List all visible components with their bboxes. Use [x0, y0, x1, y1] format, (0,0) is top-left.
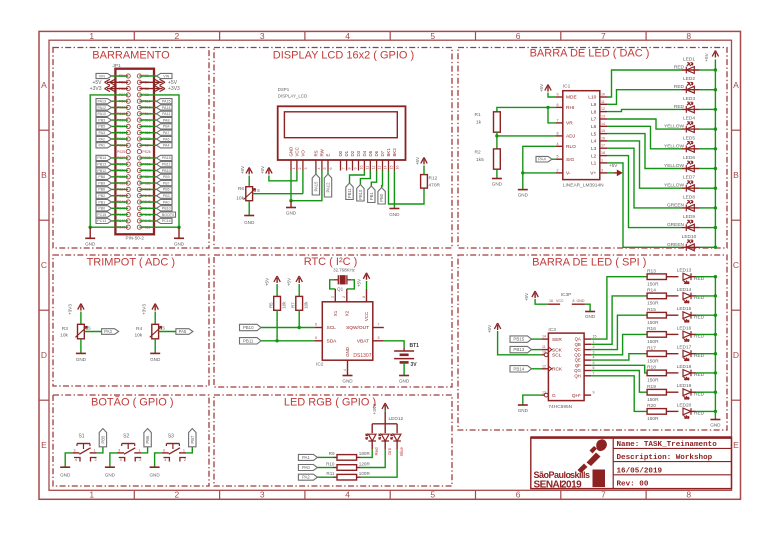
- svg-text:R7: R7: [291, 302, 296, 308]
- svg-text:LINEAR_LM3914N: LINEAR_LM3914N: [563, 183, 604, 189]
- svg-text:3: 3: [118, 448, 120, 452]
- wire IC1 L9 to LED2: [607, 90, 681, 105]
- svg-text:QH: QH: [574, 373, 580, 378]
- svg-text:GND: GND: [518, 408, 529, 413]
- IC3 pin 9 QH*: [584, 394, 591, 396]
- wire crystal to X2: [347, 280, 355, 289]
- svg-text:120R: 120R: [359, 461, 371, 466]
- LED LED10: [681, 246, 700, 248]
- net flag PB14: [96, 155, 112, 160]
- svg-text:15: 15: [593, 335, 597, 339]
- net flag PB15: [157, 155, 173, 160]
- svg-text:PB6: PB6: [98, 188, 105, 192]
- svg-text:1k: 1k: [476, 120, 482, 126]
- junction: [275, 339, 278, 342]
- svg-text:LED8: LED8: [683, 194, 695, 200]
- svg-text:PB5: PB5: [98, 125, 105, 129]
- IC1 pin L7: [600, 118, 607, 120]
- svg-text:12: 12: [601, 107, 605, 111]
- resistor R5: [274, 296, 281, 310]
- net flag VIN right: [157, 73, 173, 78]
- LED LED1: [681, 69, 700, 71]
- title block divider: [612, 437, 614, 488]
- resistor R12: [421, 175, 428, 189]
- svg-text:PS26: PS26: [142, 150, 150, 154]
- IC3 pin 4 QE: [584, 359, 591, 361]
- svg-text:GND: GND: [399, 379, 410, 384]
- section box LED RGB: [214, 395, 452, 486]
- net flag PB13: [96, 162, 112, 167]
- svg-text:+3V3: +3V3: [372, 403, 377, 414]
- ground S2: [105, 466, 115, 468]
- LED LED15: [666, 314, 678, 316]
- net flag PA7: [157, 130, 173, 135]
- junction: [714, 352, 717, 355]
- wire LCD RW to GND net: [291, 171, 322, 201]
- wire S3 to flag: [186, 447, 192, 453]
- svg-text:10k: 10k: [236, 196, 244, 202]
- IC2 pin 4 GND: [347, 360, 349, 375]
- svg-text:R18: R18: [647, 365, 656, 371]
- svg-text:7: 7: [378, 323, 380, 327]
- IC3 pin 10 SCL: [541, 354, 548, 356]
- wire SCL net: [261, 327, 314, 329]
- svg-text:VCC: VCC: [295, 147, 300, 156]
- wire R3 wiper to PA3: [84, 331, 101, 333]
- junction: [546, 106, 549, 109]
- svg-text:LED RGB ( GPIO ): LED RGB ( GPIO ): [284, 396, 376, 408]
- switch S1: [77, 443, 90, 445]
- supply +5V arrow R7: [298, 278, 300, 283]
- svg-text:LED6: LED6: [683, 155, 695, 161]
- net flag PB5: [99, 429, 106, 447]
- LED LED5: [681, 148, 700, 150]
- svg-text:+3V3: +3V3: [90, 86, 102, 92]
- svg-text:1: 1: [89, 490, 94, 500]
- LED LED8: [681, 207, 700, 209]
- IC2 pin 6 SCL: [314, 327, 322, 329]
- svg-text:E: E: [41, 440, 47, 450]
- svg-text:BARRA DE LED ( SPI ): BARRA DE LED ( SPI ): [532, 256, 646, 268]
- supply +5V arrow R5: [276, 278, 278, 283]
- IC1 pin 7 VR: [556, 122, 563, 124]
- svg-text:+5V: +5V: [357, 278, 362, 287]
- wire LED to bus: [700, 246, 716, 248]
- net flag PA4: [157, 143, 173, 148]
- svg-text:SIG: SIG: [566, 157, 575, 163]
- svg-text:VIN: VIN: [163, 74, 169, 78]
- svg-text:+5V: +5V: [92, 80, 102, 86]
- junction: [289, 199, 292, 202]
- svg-text:LED13: LED13: [677, 268, 692, 274]
- ground IC1: [518, 189, 528, 191]
- resistor R19: [647, 389, 666, 395]
- svg-text:PB13: PB13: [97, 163, 106, 167]
- net flag PA12: [324, 174, 331, 197]
- frame outer border: [39, 31, 741, 499]
- svg-text:17: 17: [601, 144, 605, 148]
- IC1 pin L5: [600, 133, 607, 135]
- wire ADJ: [497, 135, 556, 137]
- logo block: [593, 470, 606, 488]
- svg-text:PB10: PB10: [358, 189, 363, 200]
- svg-text:PA5: PA5: [179, 329, 187, 334]
- svg-text:MDE: MDE: [566, 95, 577, 101]
- net flag PB8: [96, 174, 112, 179]
- svg-text:GND: GND: [289, 147, 294, 157]
- svg-text:E: E: [326, 154, 331, 157]
- svg-text:GREEN: GREEN: [667, 202, 685, 208]
- svg-text:VCC: VCC: [556, 299, 564, 303]
- resistor R2: [494, 149, 501, 169]
- supply +5V arrow IC1: [547, 87, 549, 92]
- IC1 pin L4: [600, 140, 607, 142]
- ground left: [89, 227, 91, 238]
- IC3P GND pin: [572, 303, 585, 305]
- svg-text:VIN: VIN: [99, 74, 105, 78]
- svg-text:2: 2: [557, 168, 559, 172]
- svg-text:RW: RW: [320, 148, 325, 156]
- resistor R15: [647, 312, 666, 318]
- IC2 pin 5 SDA: [314, 340, 322, 342]
- wire trimpot R6 to GND: [248, 201, 250, 216]
- svg-text:VR: VR: [566, 121, 573, 127]
- wire S1 to flag: [97, 447, 103, 453]
- IC3 pin 13 G: [541, 394, 548, 396]
- IC1 pin L9: [600, 103, 607, 105]
- svg-text:R1: R1: [475, 112, 481, 118]
- ground R6: [244, 215, 254, 217]
- svg-text:GND: GND: [286, 211, 297, 216]
- svg-text:PB9: PB9: [98, 181, 105, 185]
- svg-text:LED7: LED7: [683, 175, 695, 181]
- section box DISPLAY LCD: [214, 48, 452, 249]
- svg-text:2: 2: [298, 168, 302, 170]
- IC2 pin 8 VCC: [366, 289, 368, 302]
- wire: [112, 138, 129, 140]
- svg-text:1: 1: [138, 448, 140, 452]
- resistor R16: [647, 332, 666, 338]
- svg-text:2: 2: [95, 458, 97, 462]
- junction: [521, 171, 524, 174]
- svg-text:32.768KHz: 32.768KHz: [333, 268, 355, 273]
- svg-text:PA3: PA3: [99, 131, 106, 135]
- svg-text:S2: S2: [123, 434, 129, 440]
- LED LED6: [681, 168, 700, 170]
- svg-text:L7: L7: [591, 117, 597, 123]
- junction: [714, 226, 717, 229]
- svg-text:PA0: PA0: [163, 200, 170, 204]
- IC1 pin L1: [600, 162, 607, 164]
- svg-text:TRIMPOT ( ADC ): TRIMPOT ( ADC ): [87, 256, 175, 268]
- svg-text:LED10: LED10: [682, 234, 697, 240]
- svg-text:D5: D5: [368, 150, 373, 156]
- svg-text:R16: R16: [647, 326, 656, 332]
- svg-text:+5V: +5V: [704, 52, 709, 61]
- svg-text:9: 9: [593, 391, 595, 395]
- svg-text:Red: Red: [374, 447, 379, 456]
- net flag PA8: [157, 118, 173, 123]
- net flag PA0: [157, 199, 173, 204]
- wire Red cathode to R9: [361, 449, 373, 457]
- LED LED4: [681, 128, 700, 130]
- svg-text:RS: RS: [314, 150, 319, 156]
- junction: [714, 294, 717, 297]
- resistor R13: [647, 274, 666, 280]
- svg-text:RHI: RHI: [566, 105, 574, 111]
- net flag PB15: [510, 336, 532, 342]
- svg-text:D: D: [733, 350, 739, 360]
- svg-text:R14: R14: [647, 288, 656, 294]
- header pin row 6 pads: [126, 105, 130, 109]
- svg-text:3: 3: [601, 168, 603, 172]
- wire VCC to +5V: [366, 281, 368, 289]
- svg-text:R20: R20: [647, 403, 656, 409]
- svg-text:16: 16: [395, 166, 399, 170]
- ground R2: [492, 178, 502, 180]
- header pin row 8 pads: [126, 118, 130, 122]
- svg-text:R3: R3: [62, 326, 68, 332]
- svg-text:100R: 100R: [359, 471, 371, 476]
- junction: [714, 275, 717, 278]
- wire IC3 QC to R15: [591, 315, 647, 349]
- junction: [714, 391, 717, 394]
- IC2 pin 2 X2: [346, 289, 348, 302]
- wire LED to GND bus: [696, 276, 715, 278]
- supply arrow +3V3 left: [107, 88, 128, 90]
- svg-text:BARRAMENTO: BARRAMENTO: [92, 50, 170, 62]
- net flag PB4: [157, 124, 173, 129]
- wire S2 to flag: [141, 447, 147, 453]
- section box TRIMPOT: [53, 255, 209, 386]
- switch S2: [122, 443, 135, 445]
- IC3 pin 12 RCK: [541, 368, 548, 370]
- svg-text:GND: GND: [710, 423, 721, 428]
- svg-text:LED18: LED18: [677, 364, 692, 370]
- wire LED to bus: [700, 227, 716, 229]
- header pin row 5 pads: [126, 99, 130, 103]
- net flag PB0: [96, 206, 112, 211]
- net flag PB9: [96, 181, 112, 186]
- IC1 pin L2: [600, 155, 607, 157]
- wire IC1 L5 to LED6: [607, 134, 681, 169]
- svg-text:SCL: SCL: [327, 325, 337, 331]
- svg-text:IC3: IC3: [548, 327, 556, 333]
- net flag PB11: [240, 338, 262, 344]
- wire S1 to GND: [65, 453, 72, 467]
- net flag PB11: [157, 162, 173, 167]
- wire IC1 L10 to LED1: [607, 70, 681, 97]
- wire SCL to +5V: [498, 331, 542, 355]
- svg-text:PB13: PB13: [513, 347, 524, 352]
- svg-text:L2: L2: [591, 153, 597, 159]
- IC1 pin 3 V+: [600, 172, 607, 174]
- svg-text:S: S: [88, 326, 91, 331]
- header pin row 1 pads: [126, 74, 130, 78]
- wire: [112, 75, 129, 77]
- net flag PC15: [96, 212, 112, 217]
- svg-text:PB8: PB8: [98, 175, 105, 179]
- wire: [112, 113, 129, 115]
- wire IC1 L6 to LED5: [607, 126, 681, 149]
- wire V+ to +5V: [607, 172, 614, 174]
- net flag PB10: [157, 168, 173, 173]
- svg-text:+5V: +5V: [539, 83, 544, 92]
- wire: [112, 119, 129, 121]
- supply +5V arrow R6: [248, 169, 250, 174]
- ground battery: [399, 375, 409, 377]
- svg-text:PC15: PC15: [97, 213, 106, 217]
- logo SENAI Sao Paulo skills hand: [596, 439, 607, 451]
- crystal Q1: [334, 279, 338, 281]
- wire R2 to GND: [496, 169, 498, 178]
- svg-text:150R: 150R: [647, 378, 659, 384]
- header pin row 19 pads: [126, 187, 130, 191]
- frame inner border: [49, 40, 732, 490]
- svg-text:GREEN: GREEN: [667, 222, 685, 228]
- svg-text:PA8: PA8: [163, 118, 170, 122]
- wire: [112, 100, 129, 102]
- header pin row 24 pads: [126, 219, 130, 223]
- svg-text:1: 1: [94, 448, 96, 452]
- svg-text:PB14: PB14: [97, 156, 106, 160]
- wire +3V3 to LED12: [384, 410, 386, 413]
- svg-text:+5V: +5V: [168, 80, 178, 86]
- junction: [298, 326, 301, 329]
- wire: [112, 157, 129, 159]
- title block outline: [531, 437, 732, 488]
- trimpot R6: [246, 187, 253, 201]
- svg-text:SCK: SCK: [552, 347, 563, 353]
- svg-text:RLO: RLO: [566, 144, 576, 150]
- svg-text:Description: Workshop: Description: Workshop: [617, 454, 713, 462]
- svg-text:PIN-50-2: PIN-50-2: [126, 236, 145, 241]
- resistor R11: [333, 476, 337, 478]
- svg-text:PA4: PA4: [163, 144, 170, 148]
- net flag PB7: [189, 429, 196, 447]
- ground IC2: [343, 375, 353, 377]
- svg-text:GND: GND: [105, 473, 116, 478]
- svg-text:IC1: IC1: [563, 84, 571, 90]
- svg-text:SENAI: SENAI: [534, 479, 563, 490]
- svg-text:GND: GND: [389, 212, 400, 217]
- svg-text:BK2: BK2: [392, 148, 397, 157]
- wire to ground: [522, 173, 524, 190]
- supply arrow +3V3 right: [139, 88, 162, 90]
- svg-text:LED16: LED16: [677, 325, 692, 331]
- wire: [112, 214, 129, 216]
- svg-text:5: 5: [430, 490, 435, 500]
- wire LED to bus: [700, 187, 716, 189]
- wire: [112, 220, 129, 222]
- ground IC3 G: [518, 404, 528, 406]
- svg-text:PA6: PA6: [163, 137, 170, 141]
- svg-text:12: 12: [542, 364, 546, 368]
- wire: [112, 207, 129, 209]
- svg-text:PB10: PB10: [162, 169, 171, 173]
- supply +5V arrow RTC VCC: [366, 275, 368, 280]
- svg-text:2: 2: [139, 458, 141, 462]
- svg-text:L6: L6: [591, 124, 597, 130]
- wire R5 to SDA: [276, 310, 278, 341]
- supply +5V arrow IC3: [497, 325, 499, 330]
- shift register IC3 74HC595 outline: [548, 333, 584, 401]
- svg-text:PA2: PA2: [99, 137, 106, 141]
- wire LED to bus: [700, 168, 716, 170]
- svg-text:1: 1: [331, 296, 335, 298]
- net flag PA2: [96, 136, 112, 141]
- svg-text:C: C: [41, 260, 47, 270]
- net flag PA15: [312, 174, 319, 195]
- svg-text:IC2: IC2: [316, 362, 324, 368]
- svg-text:GREEN: GREEN: [667, 242, 685, 248]
- svg-text:R19: R19: [647, 384, 656, 390]
- wire LCD data to PB11: [350, 171, 365, 184]
- svg-text:A: A: [733, 80, 739, 90]
- LED LED19: [666, 391, 678, 393]
- supply arrow +5V right: [139, 81, 162, 83]
- header pin row 14 pads: [126, 156, 130, 160]
- net flag PB10: [157, 206, 173, 211]
- svg-text:1: 1: [601, 158, 603, 162]
- svg-text:SCL: SCL: [552, 353, 562, 359]
- svg-text:YELLOW: YELLOW: [664, 124, 684, 130]
- svg-text:8: 8: [348, 168, 352, 170]
- resistor R14: [647, 293, 666, 299]
- wire Blue cathode to R11: [361, 449, 398, 477]
- IC3 pin 15 QA: [584, 338, 591, 340]
- header pin row 10 pads: [126, 131, 130, 135]
- svg-text:D2: D2: [350, 150, 355, 156]
- IC3 pin 1 QB: [584, 343, 591, 345]
- svg-text:GND: GND: [342, 379, 353, 384]
- svg-text:R4: R4: [136, 326, 142, 332]
- ground IC3P: [585, 311, 595, 313]
- net flag PB5: [96, 124, 112, 129]
- svg-text:YELLOW: YELLOW: [664, 143, 684, 149]
- svg-text:PB15: PB15: [513, 337, 524, 342]
- wire LCD VCC to +5V: [269, 171, 297, 181]
- wire LED to GND bus: [696, 295, 715, 297]
- wire R1 to ADJ: [496, 132, 498, 149]
- svg-text:LED4: LED4: [683, 116, 695, 122]
- svg-text:LED12: LED12: [389, 416, 404, 422]
- wire IC1 L8 to LED3: [607, 109, 681, 111]
- supply +5V arrow right: [614, 172, 619, 174]
- ground LED bus: [714, 418, 716, 420]
- wire LED to bus: [700, 148, 716, 150]
- svg-text:PB10: PB10: [162, 207, 171, 211]
- svg-text:74HC595N: 74HC595N: [548, 404, 572, 410]
- net flag PB10: [357, 185, 364, 202]
- svg-text:+5V: +5V: [265, 277, 270, 286]
- net flag PA10: [96, 111, 112, 116]
- svg-text:1: 1: [183, 448, 185, 452]
- svg-text:8: 8: [557, 131, 559, 135]
- svg-text:PB11: PB11: [162, 163, 171, 167]
- wire R7 to SCL: [298, 310, 300, 327]
- svg-text:10k: 10k: [303, 301, 308, 309]
- ground R3: [76, 352, 86, 354]
- svg-text:PA4: PA4: [538, 157, 546, 162]
- title block rows: [613, 447, 731, 449]
- svg-text:PB5: PB5: [163, 188, 170, 192]
- svg-text:150R: 150R: [647, 281, 659, 287]
- net flag PA15: [157, 99, 173, 104]
- svg-text:+5V: +5V: [415, 156, 420, 165]
- resistor R17: [647, 351, 666, 357]
- svg-text:8: 8: [362, 296, 366, 298]
